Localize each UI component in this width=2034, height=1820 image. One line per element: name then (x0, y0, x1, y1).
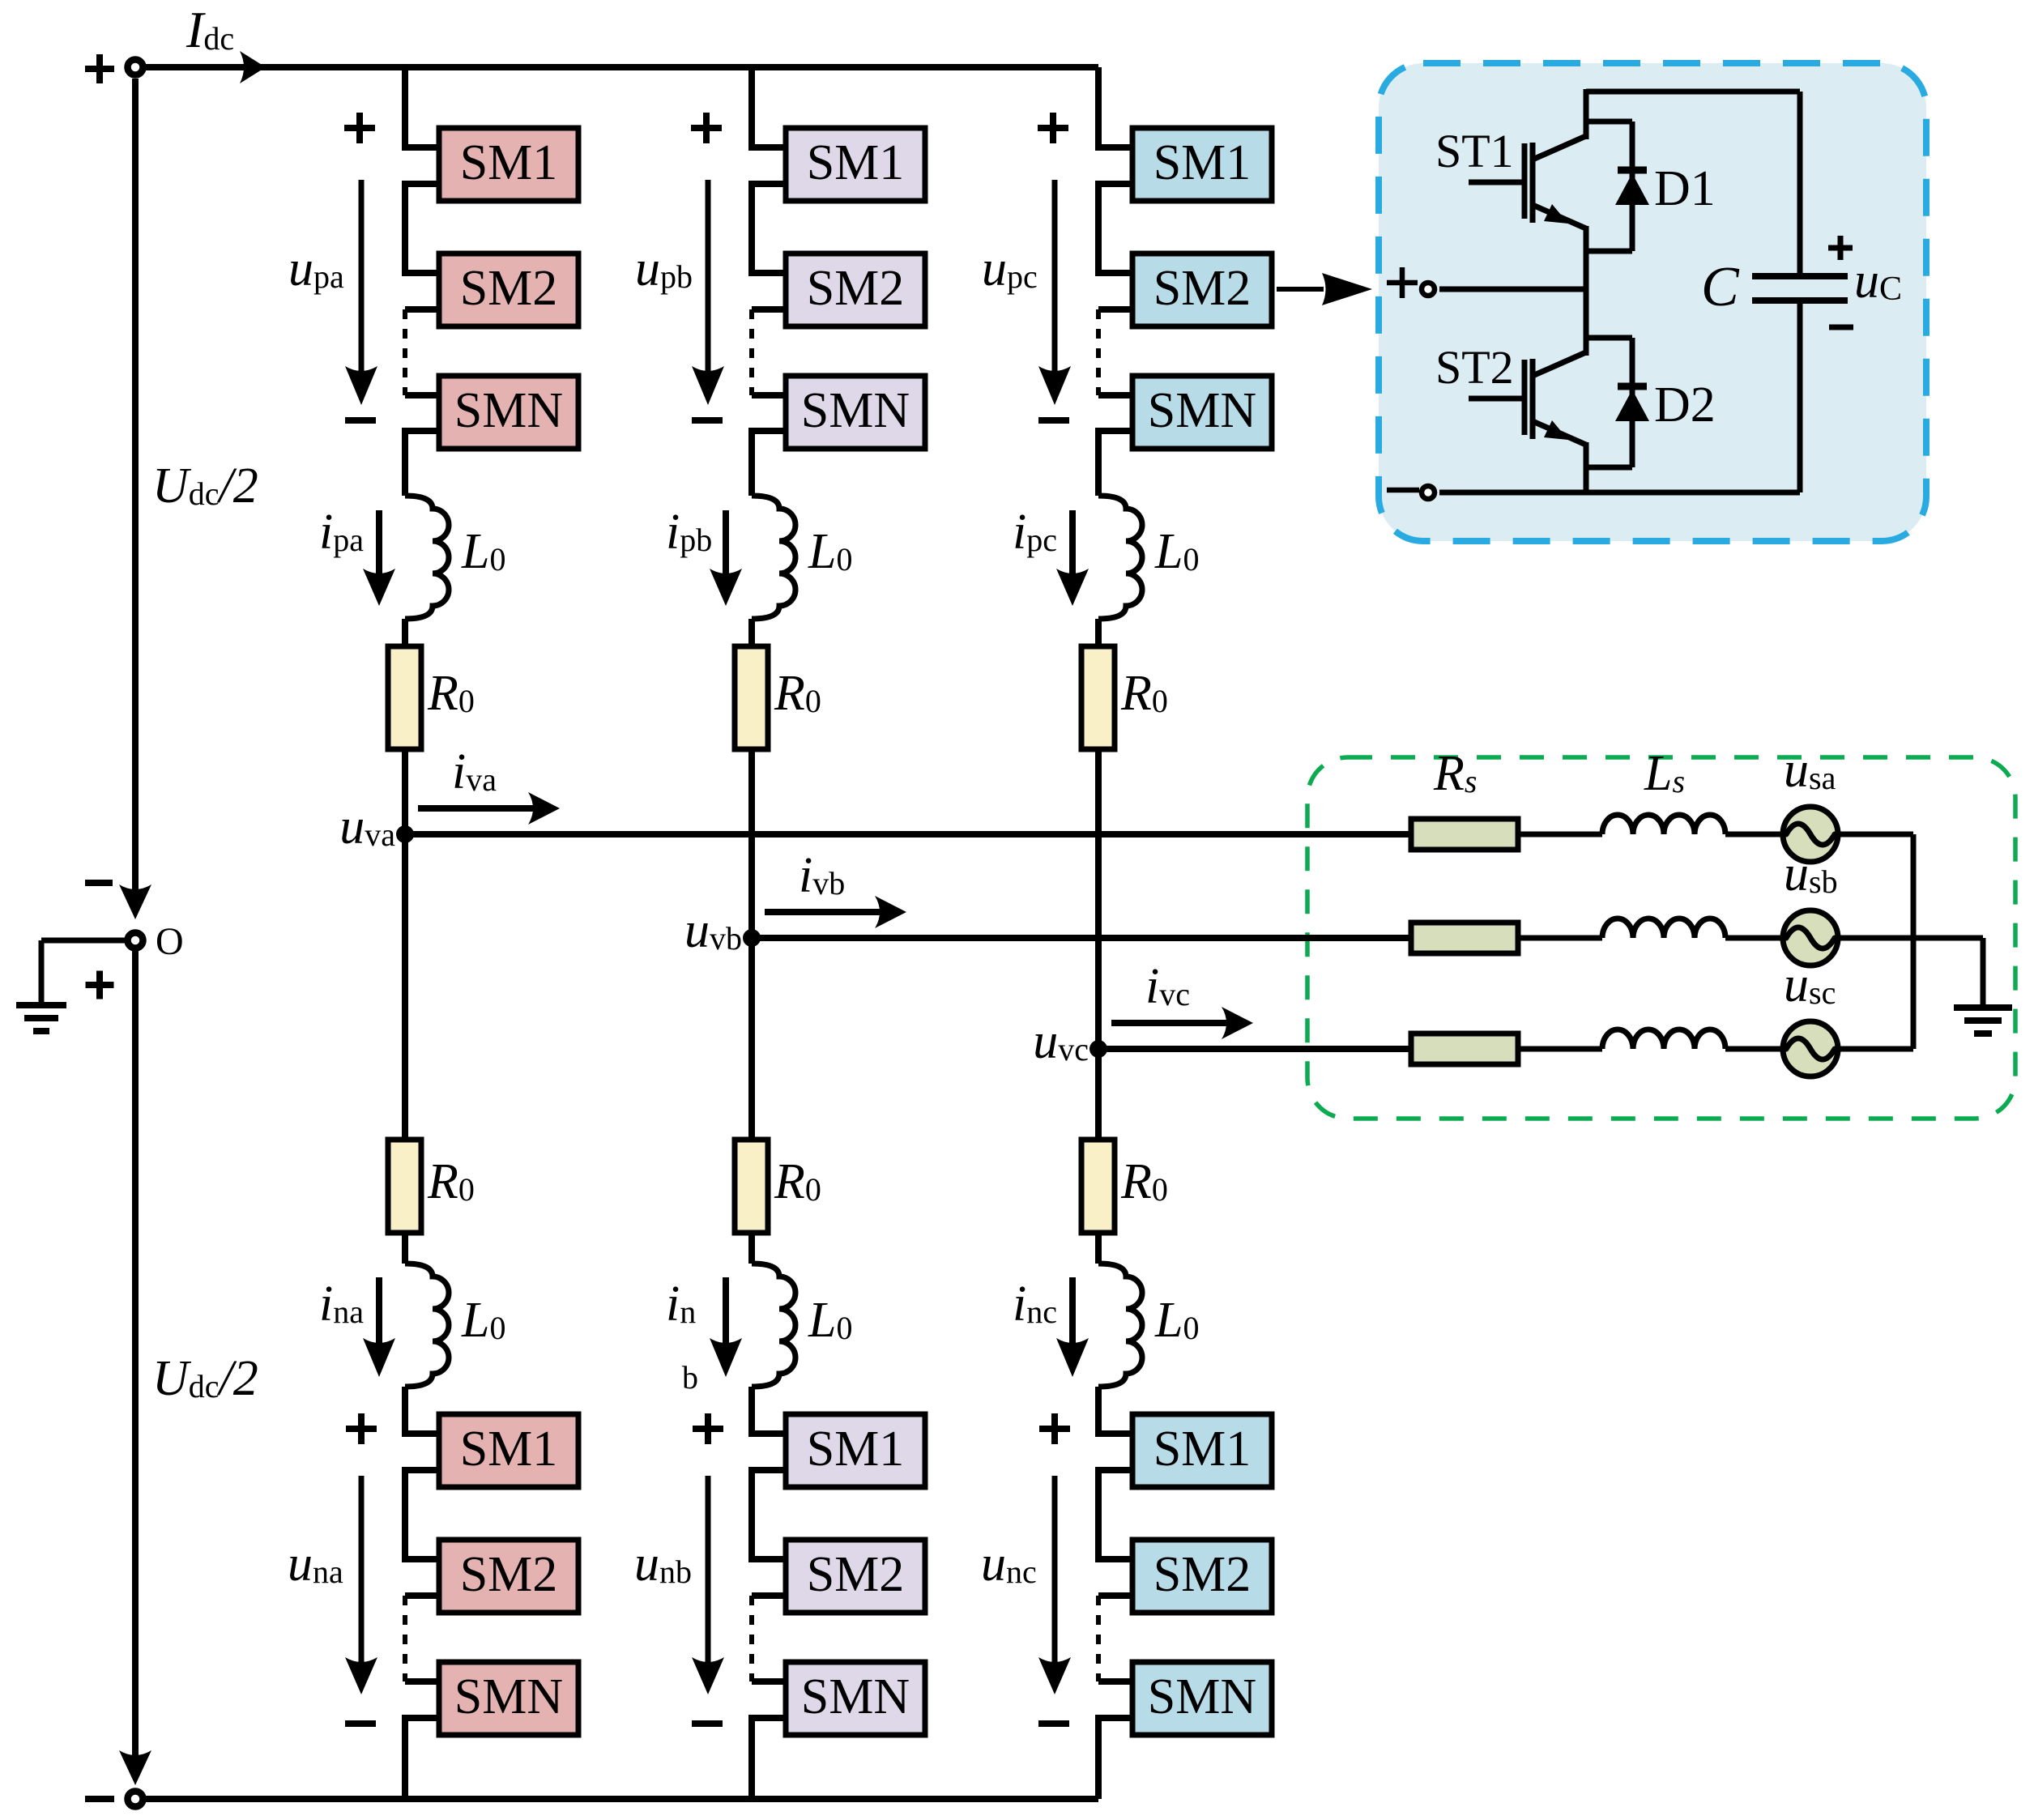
svg-text:SM2: SM2 (1153, 261, 1252, 316)
svg-text:SMN: SMN (801, 383, 910, 438)
svg-text:b: b (682, 1359, 698, 1396)
svg-text:ST1: ST1 (1435, 125, 1514, 177)
svg-text:SMN: SMN (1148, 1669, 1256, 1724)
svg-text:SMN: SMN (454, 1669, 563, 1724)
svg-text:SM1: SM1 (460, 135, 558, 190)
svg-text:SMN: SMN (801, 1669, 910, 1724)
svg-text:SM2: SM2 (460, 1547, 558, 1602)
svg-text:SM2: SM2 (1153, 1547, 1252, 1602)
svg-text:SMN: SMN (454, 383, 563, 438)
svg-text:SM2: SM2 (807, 261, 905, 316)
svg-text:SMN: SMN (1148, 383, 1256, 438)
svg-text:SM2: SM2 (460, 261, 558, 316)
svg-text:ST2: ST2 (1435, 341, 1514, 394)
svg-text:SM1: SM1 (807, 1421, 905, 1477)
svg-text:D2: D2 (1654, 377, 1716, 433)
svg-text:SM1: SM1 (460, 1421, 558, 1477)
svg-text:O: O (156, 920, 184, 963)
svg-text:C: C (1701, 256, 1740, 318)
svg-text:SM1: SM1 (1153, 135, 1252, 190)
svg-text:SM1: SM1 (1153, 1421, 1252, 1477)
svg-text:SM1: SM1 (807, 135, 905, 190)
svg-text:D1: D1 (1654, 161, 1716, 216)
svg-text:SM2: SM2 (807, 1547, 905, 1602)
